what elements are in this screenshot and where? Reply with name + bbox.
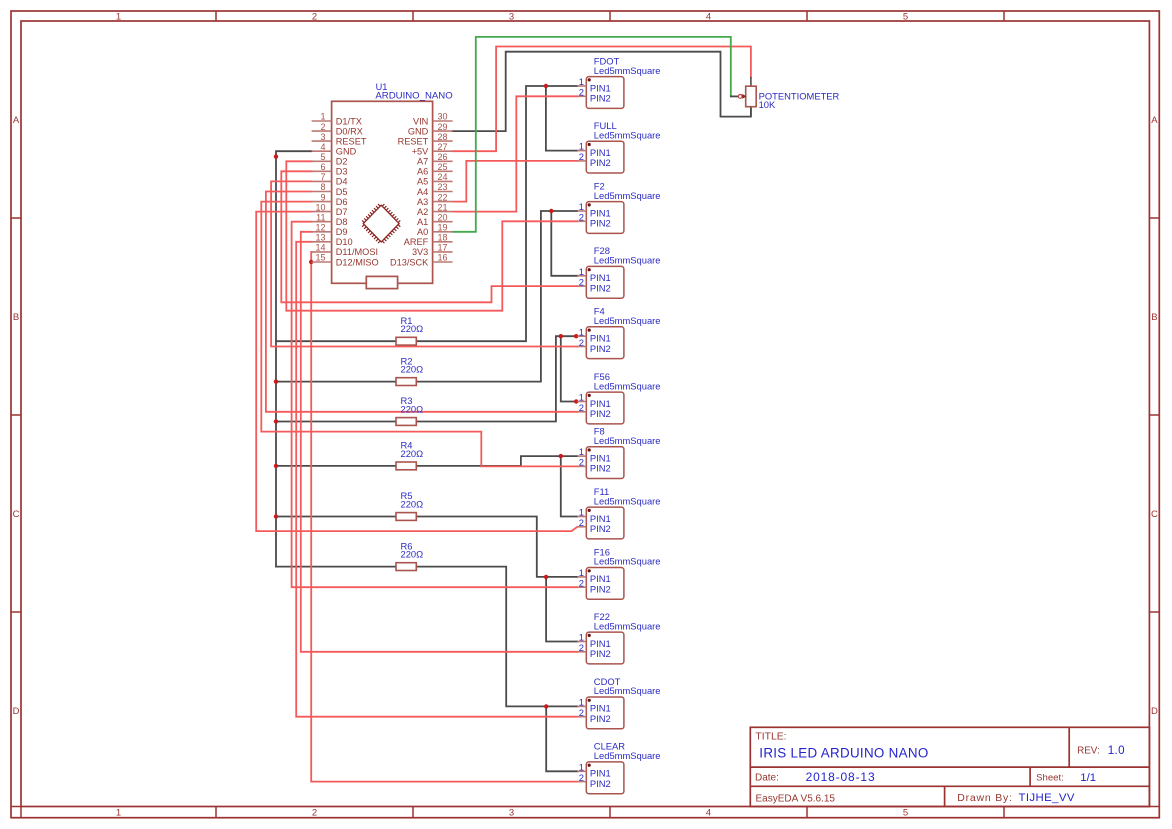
svg-text:1: 1	[579, 266, 584, 277]
svg-text:PIN2: PIN2	[590, 648, 611, 659]
svg-text:PIN2: PIN2	[590, 218, 611, 229]
svg-text:4: 4	[706, 808, 711, 819]
svg-text:17: 17	[438, 243, 448, 253]
svg-text:C: C	[13, 509, 20, 520]
svg-text:12: 12	[315, 223, 325, 233]
svg-text:A0: A0	[417, 227, 428, 237]
svg-text:B: B	[13, 312, 19, 323]
svg-text:1: 1	[579, 141, 584, 152]
svg-text:D0/RX: D0/RX	[336, 126, 363, 136]
svg-text:EasyEDA V5.6.15: EasyEDA V5.6.15	[756, 793, 836, 804]
svg-text:1: 1	[116, 808, 121, 819]
svg-text:A: A	[1151, 115, 1158, 126]
svg-text:D4: D4	[336, 177, 348, 187]
svg-text:D3: D3	[336, 167, 348, 177]
svg-text:1/1: 1/1	[1080, 772, 1096, 784]
svg-text:D13/SCK: D13/SCK	[390, 257, 429, 267]
svg-text:1: 1	[579, 697, 584, 708]
svg-text:1: 1	[579, 392, 584, 403]
svg-text:1: 1	[579, 567, 584, 578]
svg-text:8: 8	[320, 182, 325, 192]
svg-text:2: 2	[320, 122, 325, 132]
svg-text:A4: A4	[417, 187, 428, 197]
svg-text:Led5mmSquare: Led5mmSquare	[594, 315, 661, 326]
svg-text:21: 21	[438, 202, 448, 212]
svg-text:A7: A7	[417, 157, 428, 167]
svg-text:Led5mmSquare: Led5mmSquare	[594, 556, 661, 567]
svg-text:PIN2: PIN2	[590, 463, 611, 474]
svg-text:2: 2	[579, 402, 584, 413]
svg-text:PIN2: PIN2	[590, 282, 611, 293]
svg-text:9: 9	[320, 192, 325, 202]
svg-text:1: 1	[579, 761, 584, 772]
svg-text:10: 10	[315, 202, 325, 212]
svg-text:28: 28	[438, 132, 448, 142]
svg-text:D8: D8	[336, 217, 348, 227]
svg-text:A6: A6	[417, 167, 428, 177]
svg-text:220Ω: 220Ω	[401, 364, 424, 375]
svg-text:2: 2	[579, 87, 584, 98]
svg-text:26: 26	[438, 152, 448, 162]
svg-text:Led5mmSquare: Led5mmSquare	[594, 750, 661, 761]
svg-text:1: 1	[579, 632, 584, 643]
svg-text:ARDUINO_NANO: ARDUINO_NANO	[375, 90, 452, 101]
svg-text:30: 30	[438, 112, 448, 122]
svg-text:Led5mmSquare: Led5mmSquare	[594, 620, 661, 631]
svg-text:14: 14	[315, 243, 325, 253]
svg-text:16: 16	[438, 253, 448, 263]
svg-text:5: 5	[903, 808, 908, 819]
svg-text:3V3: 3V3	[412, 247, 428, 257]
svg-text:Date:: Date:	[755, 773, 779, 784]
svg-text:PIN2: PIN2	[590, 157, 611, 168]
svg-text:Sheet:: Sheet:	[1036, 773, 1064, 784]
svg-text:20: 20	[438, 212, 448, 222]
svg-text:A5: A5	[417, 177, 428, 187]
svg-text:25: 25	[438, 162, 448, 172]
svg-text:2018-08-13: 2018-08-13	[806, 770, 876, 784]
svg-text:Led5mmSquare: Led5mmSquare	[594, 495, 661, 506]
svg-text:A1: A1	[417, 217, 428, 227]
svg-text:D2: D2	[336, 157, 348, 167]
svg-text:D1/TX: D1/TX	[336, 116, 362, 126]
svg-text:Led5mmSquare: Led5mmSquare	[594, 129, 661, 140]
svg-text:3: 3	[509, 808, 514, 819]
svg-text:220Ω: 220Ω	[401, 549, 424, 560]
svg-text:A: A	[13, 115, 20, 126]
svg-text:C: C	[1151, 509, 1158, 520]
svg-text:D: D	[13, 706, 20, 717]
svg-text:+5V: +5V	[412, 147, 429, 157]
svg-text:1.0: 1.0	[1108, 744, 1125, 757]
svg-text:Led5mmSquare: Led5mmSquare	[594, 435, 661, 446]
svg-text:Led5mmSquare: Led5mmSquare	[594, 380, 661, 391]
svg-text:2: 2	[579, 212, 584, 223]
svg-text:27: 27	[438, 142, 448, 152]
svg-text:2: 2	[579, 578, 584, 589]
svg-text:PIN2: PIN2	[590, 584, 611, 595]
svg-text:D10: D10	[336, 237, 353, 247]
svg-text:PIN2: PIN2	[590, 408, 611, 419]
svg-text:D5: D5	[336, 187, 348, 197]
svg-text:220Ω: 220Ω	[401, 448, 424, 459]
svg-text:2: 2	[579, 276, 584, 287]
svg-text:13: 13	[315, 233, 325, 243]
svg-text:RESET: RESET	[336, 136, 367, 146]
svg-text:15: 15	[315, 253, 325, 263]
svg-text:GND: GND	[336, 147, 357, 157]
svg-text:Led5mmSquare: Led5mmSquare	[594, 685, 661, 696]
svg-text:5: 5	[320, 152, 325, 162]
svg-text:2: 2	[312, 808, 317, 819]
svg-text:220Ω: 220Ω	[401, 499, 424, 510]
svg-text:2: 2	[579, 457, 584, 468]
svg-text:D6: D6	[336, 197, 348, 207]
svg-text:19: 19	[438, 223, 448, 233]
svg-text:1: 1	[116, 11, 121, 22]
svg-text:18: 18	[438, 233, 448, 243]
svg-text:Led5mmSquare: Led5mmSquare	[594, 65, 661, 76]
svg-text:PIN2: PIN2	[590, 778, 611, 789]
svg-text:11: 11	[316, 212, 325, 222]
svg-text:A3: A3	[417, 197, 428, 207]
svg-text:RESET: RESET	[398, 136, 429, 146]
svg-text:Drawn By:: Drawn By:	[957, 792, 1013, 804]
svg-text:2: 2	[579, 337, 584, 348]
svg-text:24: 24	[438, 172, 448, 182]
svg-text:4: 4	[320, 142, 325, 152]
svg-text:1: 1	[579, 507, 584, 518]
svg-text:2: 2	[312, 11, 317, 22]
svg-text:B: B	[1151, 312, 1157, 323]
svg-text:PIN2: PIN2	[590, 523, 611, 534]
svg-text:PIN2: PIN2	[590, 713, 611, 724]
svg-text:23: 23	[438, 182, 448, 192]
svg-text:Led5mmSquare: Led5mmSquare	[594, 255, 661, 266]
svg-text:1: 1	[579, 76, 584, 87]
svg-text:5: 5	[903, 11, 908, 22]
svg-text:2: 2	[579, 151, 584, 162]
svg-text:7: 7	[320, 172, 325, 182]
svg-text:D11/MOSI: D11/MOSI	[336, 247, 378, 257]
svg-text:TIJHE_VV: TIJHE_VV	[1019, 792, 1075, 804]
svg-text:PIN2: PIN2	[590, 93, 611, 104]
svg-text:REV:: REV:	[1077, 746, 1100, 757]
svg-text:IRIS LED ARDUINO NANO: IRIS LED ARDUINO NANO	[759, 745, 928, 760]
svg-text:TITLE:: TITLE:	[755, 731, 786, 742]
svg-text:2: 2	[579, 642, 584, 653]
svg-text:3: 3	[320, 132, 325, 142]
svg-text:1: 1	[579, 201, 584, 212]
svg-text:3: 3	[509, 11, 514, 22]
svg-text:220Ω: 220Ω	[401, 404, 424, 415]
svg-text:2: 2	[579, 772, 584, 783]
svg-text:D12/MISO: D12/MISO	[336, 257, 379, 267]
svg-text:PIN2: PIN2	[590, 343, 611, 354]
svg-text:220Ω: 220Ω	[401, 323, 424, 334]
svg-text:D9: D9	[336, 227, 348, 237]
svg-text:22: 22	[438, 192, 448, 202]
svg-text:1: 1	[579, 326, 584, 337]
svg-text:Led5mmSquare: Led5mmSquare	[594, 190, 661, 201]
svg-text:1: 1	[320, 112, 325, 122]
svg-text:2: 2	[579, 707, 584, 718]
svg-text:VIN: VIN	[413, 116, 428, 126]
svg-text:D7: D7	[336, 207, 348, 217]
svg-text:6: 6	[320, 162, 325, 172]
svg-text:A2: A2	[417, 207, 428, 217]
svg-text:2: 2	[579, 517, 584, 528]
svg-text:GND: GND	[408, 126, 429, 136]
svg-text:4: 4	[706, 11, 711, 22]
svg-text:29: 29	[438, 122, 448, 132]
svg-text:D: D	[1151, 706, 1158, 717]
svg-text:AREF: AREF	[404, 237, 429, 247]
svg-text:10K: 10K	[759, 99, 776, 110]
svg-text:1: 1	[579, 446, 584, 457]
